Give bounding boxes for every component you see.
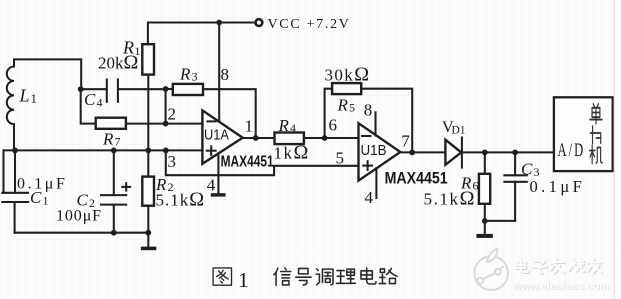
wire: R1 bottom to bus (147, 75, 149, 151)
op-amp U1A (202, 110, 242, 163)
ground bar (R6) (476, 234, 492, 238)
box text 单 (590, 104, 602, 124)
svg-text:8: 8 (221, 65, 230, 84)
wire: R5 right leg to U1B output (361, 89, 412, 153)
svg-text:MAX4451: MAX4451 (385, 169, 448, 188)
svg-text:5.1kΩ: 5.1kΩ (424, 188, 477, 210)
wire: L1 top to C4 node (14, 59, 81, 89)
svg-text:MAX4451: MAX4451 (221, 154, 274, 171)
svg-text:0.1μF: 0.1μF (17, 176, 67, 193)
node: pin2 (163, 121, 169, 127)
wire: U1A output (243, 137, 275, 139)
wire: main bus (pin3 net) (4, 149, 203, 151)
resistor R3 (166, 88, 173, 90)
resistor R1 (142, 44, 154, 74)
svg-text:5.1kΩ: 5.1kΩ (156, 189, 206, 211)
op-amp U1B (359, 123, 401, 180)
svg-text:30kΩ: 30kΩ (325, 64, 371, 86)
VCC terminal (256, 19, 263, 26)
svg-text:R: R (278, 116, 290, 135)
svg-text:C: C (84, 90, 96, 109)
wire: run under U1A to U1B pin5 (166, 150, 359, 175)
svg-text:8: 8 (364, 101, 373, 120)
wire: R1 top to VCC rail (148, 23, 255, 45)
svg-text:R: R (337, 96, 349, 115)
svg-text:D1: D1 (452, 125, 466, 137)
wire: R3 feedback to U1A output (203, 89, 256, 138)
caption 图 (213, 268, 231, 285)
node: C2 top (111, 148, 117, 154)
wire: pin2 into U1A (166, 123, 203, 125)
capacitor C3 (514, 152, 516, 175)
watermark 电 (shadow+white emboss) (517, 260, 602, 274)
svg-text:4: 4 (290, 121, 296, 135)
caption 理 (336, 269, 355, 283)
wire: U1A pin 8 stub (218, 23, 220, 122)
node: R1/R2 on bus (145, 148, 151, 154)
svg-text:C: C (521, 160, 533, 179)
wire: R5 left leg (325, 89, 333, 138)
U1B plus marker (363, 165, 372, 167)
svg-text:1: 1 (245, 117, 254, 136)
capacitor C2 (101, 194, 126, 196)
svg-text:5: 5 (336, 149, 345, 168)
wire: left leg down to C1 (2, 150, 4, 192)
node: bus tap to pin5/gnd run (163, 148, 169, 154)
node: C3 tap (512, 150, 518, 156)
wire: R7 left leg (81, 89, 96, 123)
wire: R4 to U1B pin6 (304, 137, 359, 139)
U1B minus marker (362, 135, 371, 137)
svg-text:20kΩ: 20kΩ (98, 52, 138, 74)
node: pin8 tap on VCC rail (216, 20, 222, 26)
svg-text:1: 1 (238, 268, 249, 292)
svg-text:7: 7 (401, 132, 410, 151)
svg-text:3: 3 (168, 152, 177, 171)
watermark logo circle (474, 249, 508, 290)
svg-text:A/D: A/D (558, 141, 586, 161)
A/D converter box (554, 97, 613, 171)
node: C4/R7 left junction (78, 86, 84, 92)
caption 号 (296, 268, 311, 285)
caption 电 (361, 268, 376, 284)
svg-text:0.1μF: 0.1μF (530, 177, 586, 196)
svg-text:6: 6 (329, 116, 338, 135)
svg-text:VCC +7.2V: VCC +7.2V (268, 17, 351, 32)
svg-text:4: 4 (365, 188, 374, 207)
box text 片 (590, 126, 600, 144)
svg-text:R: R (102, 130, 114, 149)
svg-text:1: 1 (43, 194, 49, 208)
capacitor C4 (81, 88, 106, 90)
ground bar (U1A pin4) (211, 193, 226, 196)
svg-text:U1B: U1B (361, 143, 387, 159)
node: output/R5 junction (409, 150, 415, 156)
svg-text:U1A: U1A (204, 128, 229, 144)
svg-text:1: 1 (31, 91, 38, 106)
node: R6 tap (482, 150, 488, 156)
wire: C1 feed (14, 150, 16, 192)
diode VD1 (445, 140, 461, 165)
svg-text:R: R (179, 65, 191, 84)
svg-text:7: 7 (115, 135, 121, 149)
node: R6 bottom / C3 bottom (482, 218, 488, 224)
ground bar (main) (141, 247, 156, 251)
wire: C2 feed (113, 150, 115, 195)
resistor R4 (275, 133, 304, 145)
wire: R7 to pin2 node (126, 123, 166, 125)
svg-text:www.elecfans.com: www.elecfans.com (513, 281, 610, 292)
resistor R6 (484, 152, 486, 173)
wire: C1 to bottom rail (14, 202, 16, 233)
svg-text:2: 2 (168, 105, 177, 124)
resistor R7 (96, 118, 126, 129)
svg-text:4: 4 (97, 96, 103, 110)
caption 路 (379, 268, 397, 283)
capacitor C2 polarity mark (122, 186, 130, 188)
svg-text:3: 3 (192, 70, 198, 84)
node: pin6 / R5 tap (322, 135, 328, 141)
svg-text:5: 5 (349, 101, 355, 115)
wire: pin2 vertical link (165, 89, 167, 124)
node: pin2 net top (163, 86, 169, 92)
scan edge line (613, 0, 615, 299)
wire: U1A pin 4 (217, 154, 219, 194)
svg-text:1kΩ: 1kΩ (274, 142, 310, 164)
inductor L1 (13, 59, 15, 66)
node: L1 bottom on bus (12, 148, 18, 154)
wire: U1B output line to A/D (400, 151, 554, 153)
svg-text:L: L (19, 86, 30, 106)
wire: bottom rail (15, 232, 149, 234)
resistor R2 (147, 150, 149, 176)
resistor R5 (332, 83, 361, 94)
wire: U1B pin 4 stub (375, 168, 377, 198)
U1A plus marker (207, 150, 216, 152)
svg-text:100μF: 100μF (56, 208, 102, 225)
node: output/R3 junction (253, 135, 259, 141)
box text 机 (590, 145, 603, 163)
svg-text:4: 4 (207, 176, 216, 195)
caption 信 (274, 268, 291, 285)
wire: C3 bottom to R6 bottom (485, 220, 515, 222)
node: R2 bottom on rail (145, 230, 151, 236)
capacitor C1 (2, 192, 28, 194)
wire: U1B pin 8 stub (374, 112, 376, 135)
node: C2 bottom (111, 230, 117, 236)
caption 调 (316, 269, 333, 285)
U1A minus marker (208, 120, 216, 122)
